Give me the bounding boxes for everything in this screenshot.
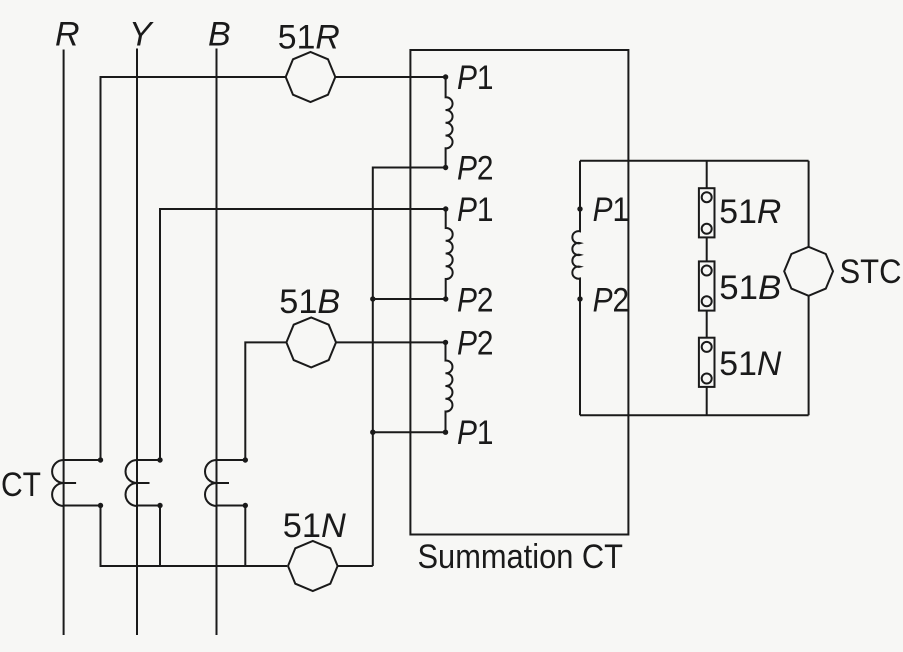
wire CT-Y top tap — [137, 459, 160, 461]
svg-text:51N: 51N — [719, 345, 781, 383]
wire CT-B bottom drop — [244, 506, 246, 567]
summation winding 2 — [446, 209, 453, 299]
terminal dot aux P1 — [577, 206, 582, 211]
svg-text:51B: 51B — [719, 269, 781, 307]
junction dot CT-Y bottom — [157, 503, 162, 508]
auxiliary relay box — [580, 161, 809, 416]
svg-text:51R: 51R — [278, 19, 340, 57]
terminal dot W2 P2 — [443, 296, 448, 301]
phase line R — [63, 50, 65, 636]
svg-text:P1: P1 — [457, 59, 494, 97]
CT R arcs — [52, 460, 76, 506]
svg-text:P2: P2 — [457, 150, 494, 188]
summation winding 1 — [446, 77, 453, 168]
contact 51N — [699, 338, 715, 387]
svg-text:STC: STC — [840, 253, 902, 291]
svg-text:CT: CT — [1, 466, 41, 504]
aux box winding — [572, 161, 580, 416]
phase line Y — [136, 49, 138, 636]
junction dot bus-W3 — [370, 430, 375, 435]
svg-text:51B: 51B — [279, 283, 340, 321]
CT B arcs — [205, 460, 229, 506]
wire 51B to winding 3 P2 — [336, 341, 446, 343]
CT Y arcs — [126, 460, 150, 506]
phase line B — [216, 49, 218, 636]
contact 51B circles — [702, 266, 712, 276]
relay 51N octagon — [288, 541, 338, 591]
relay 51B octagon — [286, 317, 336, 367]
wire CT-B secondary up to 51B — [245, 342, 286, 460]
wire CT-Y bottom tap — [137, 505, 160, 507]
contact 51R — [699, 188, 715, 237]
svg-text:P2: P2 — [593, 282, 630, 320]
svg-text:Summation CT: Summation CT — [418, 538, 624, 576]
junction dot CT-R bottom — [98, 503, 103, 508]
terminal dot W3 P1 — [443, 430, 448, 435]
svg-text:B: B — [208, 16, 231, 54]
STC octagon — [784, 247, 833, 296]
terminal dot aux P2 — [577, 296, 582, 301]
svg-text:P1: P1 — [593, 191, 630, 229]
relay contact column — [706, 161, 708, 416]
svg-text:Y: Y — [129, 16, 154, 54]
junction dot CT-B bottom — [243, 503, 248, 508]
wire CT-R secondary up to 51R line — [101, 77, 286, 460]
junction dot CT-Y top — [157, 457, 162, 462]
terminal dot W2 P1 — [443, 206, 448, 211]
wire bottom bus to 51N — [101, 506, 288, 567]
wire CT-Y bottom drop — [159, 506, 161, 567]
wire CT-Y secondary to winding 2 P1 — [160, 209, 446, 460]
terminal dot W3 P2 — [443, 340, 448, 345]
terminal dot W1 P2 — [443, 165, 448, 170]
wire CT-B bottom tap — [217, 505, 246, 507]
wire 51R to summation winding 1 P1 — [335, 76, 445, 78]
contact 51N circles — [702, 342, 712, 352]
summation winding 3 — [446, 342, 453, 432]
contact 51B — [699, 261, 715, 310]
svg-text:P2: P2 — [457, 282, 494, 320]
svg-text:P1: P1 — [457, 191, 494, 229]
junction dot bus-W2 — [370, 296, 375, 301]
wire CT-R bottom tap — [64, 505, 101, 507]
terminal dot W1 P1 — [443, 74, 448, 79]
svg-text:R: R — [55, 16, 80, 54]
junction dot CT-B top — [243, 457, 248, 462]
summation CT box — [410, 50, 628, 535]
svg-text:51R: 51R — [719, 193, 781, 231]
contact 51R circles — [702, 192, 712, 202]
wire CT-R top tap — [64, 459, 101, 461]
wire winding1 P2 to return bus — [373, 168, 446, 567]
wire 51N to return bus corner — [338, 565, 373, 567]
svg-text:P2: P2 — [457, 324, 494, 362]
junction dot CT-R top — [98, 457, 103, 462]
svg-text:P1: P1 — [457, 414, 494, 452]
wire winding2 P2 to return bus — [373, 298, 446, 300]
wire winding3 P1 to return bus — [373, 431, 446, 433]
svg-text:51N: 51N — [283, 507, 346, 545]
wire CT-B top tap — [217, 459, 246, 461]
relay 51R octagon — [286, 52, 336, 102]
